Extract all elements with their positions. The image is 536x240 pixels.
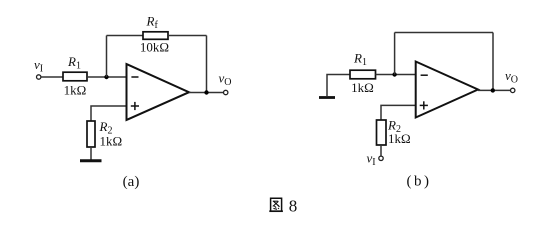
svg-text:1kΩ: 1kΩ	[388, 131, 411, 146]
wire output (a)	[189, 92, 224, 94]
minus sign at inverting input (b)	[421, 74, 428, 76]
ground (a)	[80, 159, 102, 162]
svg-text:1kΩ: 1kΩ	[100, 134, 123, 149]
caption character 图 (drawn)	[269, 198, 283, 211]
svg-text:vI: vI	[34, 57, 43, 75]
resistor R2 (b)	[377, 120, 387, 145]
wire noninverting input (b)	[381, 105, 416, 120]
junction node at inverting input (b)	[392, 72, 396, 76]
output terminal vO (b)	[511, 88, 515, 92]
resistor Rf (a)	[143, 32, 168, 40]
output terminal vO (a)	[224, 90, 228, 94]
svg-text:1kΩ: 1kΩ	[351, 80, 374, 95]
svg-text:vO: vO	[219, 71, 232, 89]
svg-text:Rf: Rf	[146, 14, 159, 32]
wire junction up to feedback (a)	[106, 36, 108, 78]
plus sign at noninverting input (a)	[131, 105, 139, 107]
svg-text:10kΩ: 10kΩ	[140, 40, 169, 55]
minus sign at inverting input (a)	[131, 76, 138, 78]
wire feedback down to output (a)	[206, 36, 208, 93]
wire R1 to inverting input (a)	[87, 76, 127, 78]
junction node at inverting input (a)	[104, 75, 108, 79]
wire feedback left to Rf (a)	[107, 35, 144, 37]
resistor R1 (a)	[63, 72, 87, 81]
svg-text:vI: vI	[367, 151, 376, 169]
wire noninverting input (a)	[91, 106, 127, 121]
wire ground to R1 (b)	[327, 75, 350, 97]
wire output (b)	[478, 89, 510, 91]
svg-text:vO: vO	[505, 68, 518, 86]
wire R1 to inverting input (b)	[376, 74, 416, 76]
plus sign at noninverting input (b)	[420, 104, 428, 106]
ground (b)	[319, 96, 335, 99]
svg-text:R1: R1	[67, 54, 81, 72]
wire Rf to output vertical (a)	[168, 35, 207, 37]
junction node at output (a)	[204, 90, 208, 94]
svg-text:(b): (b)	[407, 174, 432, 190]
svg-text:(a): (a)	[123, 174, 140, 190]
svg-text:1kΩ: 1kΩ	[64, 83, 87, 98]
op-amp U1 (a)	[127, 64, 190, 120]
op-amp U2 (b)	[416, 62, 478, 118]
input terminal vI (b)	[379, 156, 383, 160]
svg-text:8: 8	[289, 197, 298, 216]
svg-text:R1: R1	[353, 51, 367, 69]
input terminal vI (a)	[37, 75, 41, 79]
wire R2 to ground (a)	[90, 147, 92, 160]
junction node at output (b)	[491, 88, 495, 92]
wire feedback top (b)	[395, 32, 493, 34]
resistor R1 (b)	[350, 70, 376, 79]
wire feedback down to output (b)	[492, 33, 494, 91]
wire feedback up (b)	[394, 33, 396, 75]
resistor R2 (a)	[87, 121, 95, 147]
wire R2 to vI terminal (b)	[380, 145, 382, 156]
wire vI to R1 (a)	[41, 76, 63, 78]
